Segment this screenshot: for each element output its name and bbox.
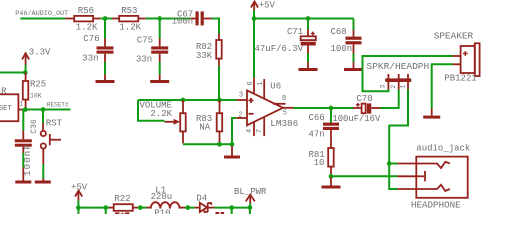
svg-text:33n: 33n	[136, 55, 152, 65]
svg-text:+5V: +5V	[71, 183, 88, 193]
op-amp U1 LM386	[247, 81, 298, 129]
node junction bottom2	[103, 205, 108, 210]
svg-text:6: 6	[247, 81, 255, 85]
value text cut at edge under D4	[216, 212, 225, 214]
node junction bottom5	[229, 205, 234, 210]
svg-text:BL_PWR: BL_PWR	[234, 187, 267, 197]
resistor R82	[196, 34, 222, 67]
svg-text:1: 1	[399, 85, 406, 89]
wire stub down1	[77, 208, 79, 214]
ground for C68	[344, 62, 363, 71]
jack internal contact bottom	[416, 185, 450, 191]
node BL_PWR supply arrow	[234, 187, 267, 207]
node junction bottom4	[185, 205, 190, 210]
switch RESET button box	[0, 87, 23, 122]
svg-text:C66: C66	[309, 113, 325, 123]
wire R81 junction to jack tip	[331, 175, 398, 177]
switch RST pushbutton	[41, 119, 63, 149]
node junction bottom1	[76, 205, 81, 210]
ground for C71	[299, 62, 318, 71]
ground below RST	[35, 181, 51, 184]
capacitor C36	[15, 119, 39, 180]
svg-text:5: 5	[283, 109, 287, 117]
svg-text:4: 4	[246, 129, 254, 133]
wire RESET# net	[22, 109, 71, 111]
jack internal tip bar	[416, 171, 425, 182]
wire R56 to R53	[100, 18, 112, 20]
svg-text:2.2K: 2.2K	[150, 109, 172, 119]
node junction ground tap	[230, 142, 235, 147]
svg-text:3: 3	[239, 91, 243, 99]
svg-text:2: 2	[390, 85, 397, 89]
ground below R81	[322, 177, 341, 188]
node junction A	[103, 16, 108, 21]
connector JP pins	[385, 74, 411, 90]
inductor L1	[147, 186, 186, 219]
ground for C76	[96, 75, 115, 84]
jack pin leads	[398, 164, 417, 190]
resistor R56	[65, 6, 100, 33]
power 3.3V	[22, 47, 51, 64]
capacitor C75 with wire	[136, 20, 168, 75]
wire C67 to R82	[212, 19, 220, 34]
node junction bottom3	[138, 205, 143, 210]
svg-text:+5V: +5V	[259, 0, 276, 10]
potentiometer VOLUME body	[180, 100, 186, 143]
node junction reset-R25	[23, 107, 28, 112]
capacitor C68	[331, 19, 362, 63]
wire RST to ground	[42, 149, 44, 181]
wire stub down6	[249, 208, 251, 214]
capacitor C71	[255, 20, 316, 63]
jack internal contact top	[416, 162, 450, 168]
node junction C71 tap	[306, 16, 311, 21]
wire stub down2	[105, 208, 107, 214]
svg-text:1.2K: 1.2K	[76, 23, 98, 33]
resistor R81	[309, 148, 334, 175]
pin 7 lead	[256, 117, 264, 136]
svg-text:R22: R22	[114, 194, 130, 204]
svg-text:10: 10	[314, 158, 325, 168]
svg-text:C68: C68	[331, 27, 347, 37]
diode D4	[195, 193, 215, 212]
node junction output	[329, 106, 334, 111]
svg-text:C76: C76	[83, 34, 99, 44]
svg-text:100n: 100n	[331, 44, 353, 54]
svg-text:2: 2	[238, 111, 242, 119]
svg-text:100n: 100n	[172, 17, 194, 27]
resistor R83	[196, 100, 222, 143]
svg-text:C70: C70	[356, 94, 372, 104]
node VOLUME net label flag	[138, 100, 173, 121]
svg-text:PB1221: PB1221	[444, 74, 476, 84]
potentiometer VOLUME wiper arrow	[165, 119, 181, 125]
svg-text:220u: 220u	[151, 192, 173, 202]
svg-text:NA: NA	[199, 122, 210, 132]
wire connector pin1 down to jack	[389, 90, 408, 190]
svg-text:C75: C75	[137, 35, 153, 45]
svg-text:SPEAKER: SPEAKER	[434, 31, 474, 42]
svg-text:1.2K: 1.2K	[119, 23, 141, 33]
svg-text:RST: RST	[46, 119, 63, 129]
pin 5 output lead	[283, 108, 294, 118]
capacitor C70	[332, 94, 381, 124]
wire 3.3V to R25 and left edge	[25, 65, 27, 73]
svg-text:LM386: LM386	[270, 118, 298, 129]
svg-text:8: 8	[282, 95, 286, 103]
pin 8 lead	[273, 95, 286, 104]
svg-text:C36: C36	[30, 119, 39, 134]
wire bottom net pot to pin2 column	[183, 118, 236, 144]
wire L1 to D4	[185, 207, 195, 209]
power +5V bottom	[71, 183, 88, 201]
ground for C75	[150, 75, 169, 84]
wire +5V down to pin6	[253, 19, 255, 78]
node junction B	[157, 16, 162, 21]
connector audio_jack J1	[411, 144, 470, 211]
resistor R22	[109, 194, 138, 211]
wire down to C36	[22, 111, 24, 131]
wire +5V rail	[254, 10, 354, 18]
capacitor C66	[309, 109, 340, 148]
wire speaker minus to ground	[432, 64, 453, 108]
svg-text:R25: R25	[30, 80, 46, 90]
capacitor C67	[172, 9, 212, 26]
pin 4 lead	[246, 122, 254, 136]
wire output pin5	[294, 107, 354, 109]
svg-text:audio_jack: audio_jack	[416, 144, 470, 154]
svg-text:SPKR/HEADPH: SPKR/HEADPH	[367, 61, 430, 72]
svg-text:P10: P10	[154, 209, 170, 215]
node junction bottom6	[248, 205, 253, 210]
svg-text:P46/AUDIO_OUT: P46/AUDIO_OUT	[15, 10, 68, 18]
wire R82 to volume net	[218, 66, 220, 100]
node junction R83 bottom	[217, 142, 222, 147]
wire RST junction down	[42, 111, 44, 131]
wire R53 to C67	[146, 18, 191, 20]
wire bottom rail	[78, 200, 109, 207]
node junction pot top	[181, 98, 186, 103]
wire jack pin1 stub	[389, 163, 397, 165]
power +5V top	[251, 0, 276, 10]
wire VOLUME net to pin 3	[138, 99, 237, 101]
wire R22 to L1	[138, 207, 147, 209]
ground below pin2 net	[224, 146, 240, 159]
wire C70 to connector pin2	[381, 90, 399, 109]
svg-text:47uF/6.3V: 47uF/6.3V	[255, 44, 304, 54]
svg-text:HEADPHONE: HEADPHONE	[411, 200, 461, 211]
wire P46/AUDIO_OUT to R56	[20, 18, 65, 20]
pin 1 lead	[257, 79, 265, 99]
node junction jack pin1 tap	[387, 161, 392, 166]
wire stub down5	[231, 208, 233, 214]
node junction reset-RST	[41, 107, 46, 112]
svg-text:100uF/16V: 100uF/16V	[332, 114, 381, 124]
wire connector pin3 to speaker	[363, 56, 453, 91]
ground below C36	[15, 181, 31, 184]
svg-text:7: 7	[256, 129, 264, 133]
node junction R81 bottom	[329, 174, 334, 179]
node junction +5V	[252, 16, 257, 21]
svg-text:RESET#: RESET#	[47, 102, 69, 109]
svg-text:D4: D4	[196, 193, 207, 203]
node P46/AUDIO_OUT	[15, 10, 68, 18]
value text cut at edge under R22	[115, 212, 129, 214]
svg-text:3.3V: 3.3V	[29, 47, 51, 57]
svg-text:C71: C71	[287, 27, 303, 37]
node junction R83 top	[217, 98, 222, 103]
svg-text:10K: 10K	[30, 93, 42, 100]
svg-text:47n: 47n	[309, 129, 325, 139]
svg-text:33n: 33n	[82, 53, 98, 63]
pin 3 lead	[237, 91, 248, 100]
resistor R53	[112, 6, 146, 33]
pin 6 lead	[247, 78, 255, 95]
node junction 3.3V	[23, 70, 28, 75]
resistor R25	[23, 73, 46, 109]
svg-text:U6: U6	[270, 81, 281, 91]
svg-text:R56: R56	[78, 6, 94, 16]
svg-text:3: 3	[380, 85, 387, 89]
svg-text:33K: 33K	[196, 51, 213, 61]
speaker SP1 PB1221	[434, 31, 480, 84]
svg-text:100nF: 100nF	[23, 143, 33, 176]
wire D4 to BL_PWR	[215, 207, 250, 209]
svg-text:1: 1	[19, 101, 23, 108]
pin 2 lead	[236, 111, 247, 119]
capacitor C76 with wire	[82, 20, 113, 75]
svg-text:1: 1	[257, 81, 265, 85]
svg-text:ESET: ESET	[0, 105, 12, 113]
svg-text:R53: R53	[121, 6, 137, 16]
ground below speaker	[423, 109, 440, 119]
